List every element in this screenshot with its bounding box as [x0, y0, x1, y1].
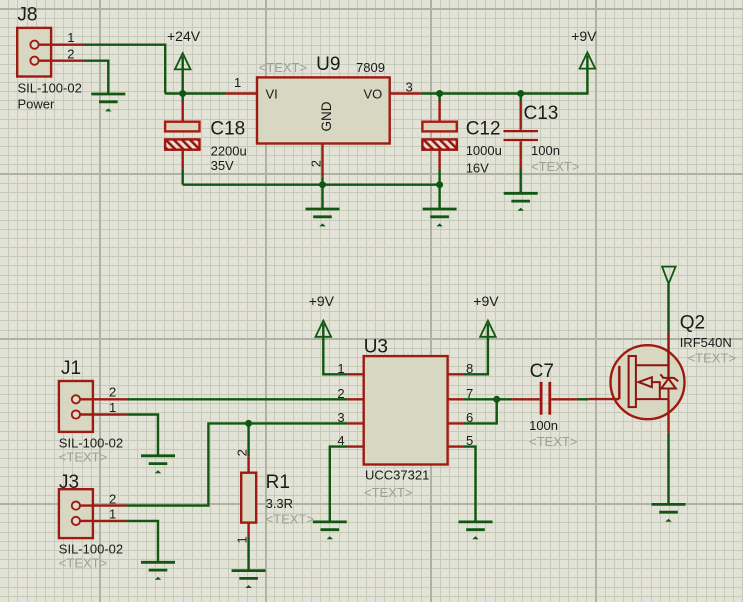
svg-text:SIL-100-02: SIL-100-02 — [18, 80, 82, 95]
ground (J8 pin2) — [91, 94, 125, 111]
svg-text:3: 3 — [337, 410, 344, 425]
svg-text:100n: 100n — [529, 418, 558, 433]
wire J8 pin1 to +24V node — [84, 45, 165, 94]
svg-text:J1: J1 — [61, 358, 81, 379]
wire +24V node to U9 pin1 — [165, 92, 225, 94]
power +9V (U3 pin8) — [473, 293, 499, 337]
pin 8 stub (U3) — [448, 373, 464, 375]
svg-text:1: 1 — [109, 400, 116, 415]
svg-text:<TEXT>: <TEXT> — [688, 351, 736, 366]
ground (J3 pin1) — [141, 562, 175, 579]
ground (U3 pin4) — [313, 522, 347, 539]
svg-text:J8: J8 — [17, 5, 37, 26]
svg-text:<TEXT>: <TEXT> — [364, 485, 412, 500]
junction node U3 pin7 — [493, 396, 500, 403]
wire U3 pin1 to +9V — [323, 324, 347, 375]
svg-text:SIL-100-02: SIL-100-02 — [59, 435, 123, 450]
capacitor C13 — [504, 94, 539, 194]
svg-text:<TEXT>: <TEXT> — [531, 159, 579, 174]
junction node C12 bottom — [436, 181, 443, 188]
pin 2 stub (U9) — [321, 144, 323, 177]
svg-text:<TEXT>: <TEXT> — [266, 512, 314, 527]
svg-text:2: 2 — [309, 160, 324, 167]
svg-text:1: 1 — [109, 507, 116, 522]
wire U3 pin5 to ground — [464, 447, 476, 522]
power +9V (top right) — [571, 28, 597, 69]
svg-text:1: 1 — [234, 536, 249, 543]
connector J1 — [59, 358, 127, 432]
wire U3 pin4 to ground — [330, 447, 348, 522]
svg-text:2200u: 2200u — [211, 143, 247, 158]
regulator U9 7809 — [257, 54, 390, 144]
wire ground rail C18 to C12 — [183, 183, 440, 185]
svg-text:16V: 16V — [466, 160, 489, 175]
resistor R1 — [241, 423, 256, 570]
ground (U9 pin2) — [306, 209, 340, 226]
svg-text:R1: R1 — [266, 472, 290, 493]
ground (C13) — [504, 193, 538, 210]
pin 3 stub (U9) — [390, 92, 422, 94]
connector J3 — [59, 472, 126, 538]
svg-text:7809: 7809 — [356, 60, 385, 75]
junction node +24V — [179, 90, 186, 97]
svg-text:IRF540N: IRF540N — [680, 335, 732, 350]
wire J8 pin2 to ground — [84, 61, 108, 94]
ground (Q2 source) — [652, 504, 686, 521]
svg-text:C18: C18 — [210, 119, 245, 140]
wire J3 pin2 to U3 pin3 — [126, 423, 347, 505]
svg-text:<TEXT>: <TEXT> — [59, 556, 107, 571]
wire U9 pin3 to +9V rail — [422, 55, 587, 93]
ground (U3 pin5) — [459, 522, 493, 539]
svg-text:3.3R: 3.3R — [266, 496, 293, 511]
svg-text:C13: C13 — [524, 103, 559, 124]
IC U3 UCC37321 — [364, 337, 448, 501]
pin 1 stub (U3) — [348, 373, 364, 375]
wire J1 pin1 to ground — [127, 415, 158, 456]
svg-text:Q2: Q2 — [680, 313, 705, 334]
junction node C13 top — [517, 90, 524, 97]
junction node C12 top — [436, 90, 443, 97]
svg-text:3: 3 — [406, 80, 413, 95]
svg-text:U9: U9 — [316, 54, 340, 75]
svg-text:2: 2 — [109, 491, 116, 506]
svg-text:C7: C7 — [530, 361, 554, 382]
wire U3 pin8 to +9V — [464, 324, 488, 375]
junction node U9 pin2 — [319, 181, 326, 188]
wire C7 to Q2 gate — [577, 398, 588, 400]
terminal arrow (Q2 drain) — [662, 267, 676, 333]
transistor Q2 IRF540N — [588, 333, 684, 433]
svg-text:1: 1 — [234, 75, 241, 90]
svg-text:UCC37321: UCC37321 — [365, 467, 429, 482]
svg-text:2: 2 — [234, 449, 249, 456]
svg-text:<TEXT>: <TEXT> — [259, 60, 307, 75]
wire J1 pin2 to U3 pin2 — [127, 398, 348, 400]
svg-text:+9V: +9V — [473, 293, 499, 309]
svg-text:2: 2 — [67, 46, 74, 61]
svg-text:C12: C12 — [466, 118, 501, 139]
svg-text:+24V: +24V — [167, 28, 201, 44]
svg-text:1: 1 — [67, 30, 74, 45]
capacitor C18 — [165, 94, 199, 185]
wire U3 pin6 to pin7 node — [464, 399, 497, 423]
wire J3 pin1 to ground — [126, 521, 158, 562]
svg-text:<TEXT>: <TEXT> — [59, 450, 107, 465]
pin 2 stub (U3) — [348, 398, 364, 400]
power +24V — [167, 28, 201, 94]
connector J8 — [17, 5, 84, 77]
pin 5 stub (U3) — [448, 445, 464, 447]
ground (J1 pin1) — [141, 456, 175, 473]
svg-text:+9V: +9V — [571, 28, 597, 44]
svg-text:VI: VI — [266, 86, 278, 101]
ground (R1) — [232, 571, 266, 588]
pin 3 stub (U3) — [348, 422, 364, 424]
wire U3 pin7 to C7 — [464, 398, 512, 400]
pin 4 stub (U3) — [348, 445, 364, 447]
svg-text:2: 2 — [337, 386, 344, 401]
svg-text:2: 2 — [109, 385, 116, 400]
svg-text:VO: VO — [364, 86, 383, 101]
capacitor C7 — [512, 382, 577, 415]
pin 1 stub (U9) — [225, 92, 257, 94]
wire U9 pin2 to ground — [321, 185, 323, 209]
wire C12 to ground — [438, 185, 440, 209]
svg-text:SIL-100-02: SIL-100-02 — [59, 541, 123, 556]
power +9V (U3 pin1) — [309, 293, 335, 337]
svg-text:U3: U3 — [364, 337, 388, 358]
pin 7 stub (U3) — [448, 398, 464, 400]
svg-text:GND: GND — [319, 101, 334, 131]
svg-text:J3: J3 — [59, 472, 79, 493]
svg-text:Power: Power — [18, 96, 56, 111]
svg-text:<TEXT>: <TEXT> — [529, 434, 577, 449]
pin 6 stub (U3) — [448, 422, 464, 424]
svg-text:+9V: +9V — [309, 293, 335, 309]
capacitor C12 — [422, 94, 456, 185]
ground (C12) — [423, 209, 457, 226]
svg-text:100n: 100n — [531, 143, 560, 158]
junction node R1 top — [245, 420, 252, 427]
svg-text:35V: 35V — [211, 158, 234, 173]
wire Q2 source to ground — [667, 433, 669, 505]
svg-text:1000u: 1000u — [466, 143, 502, 158]
